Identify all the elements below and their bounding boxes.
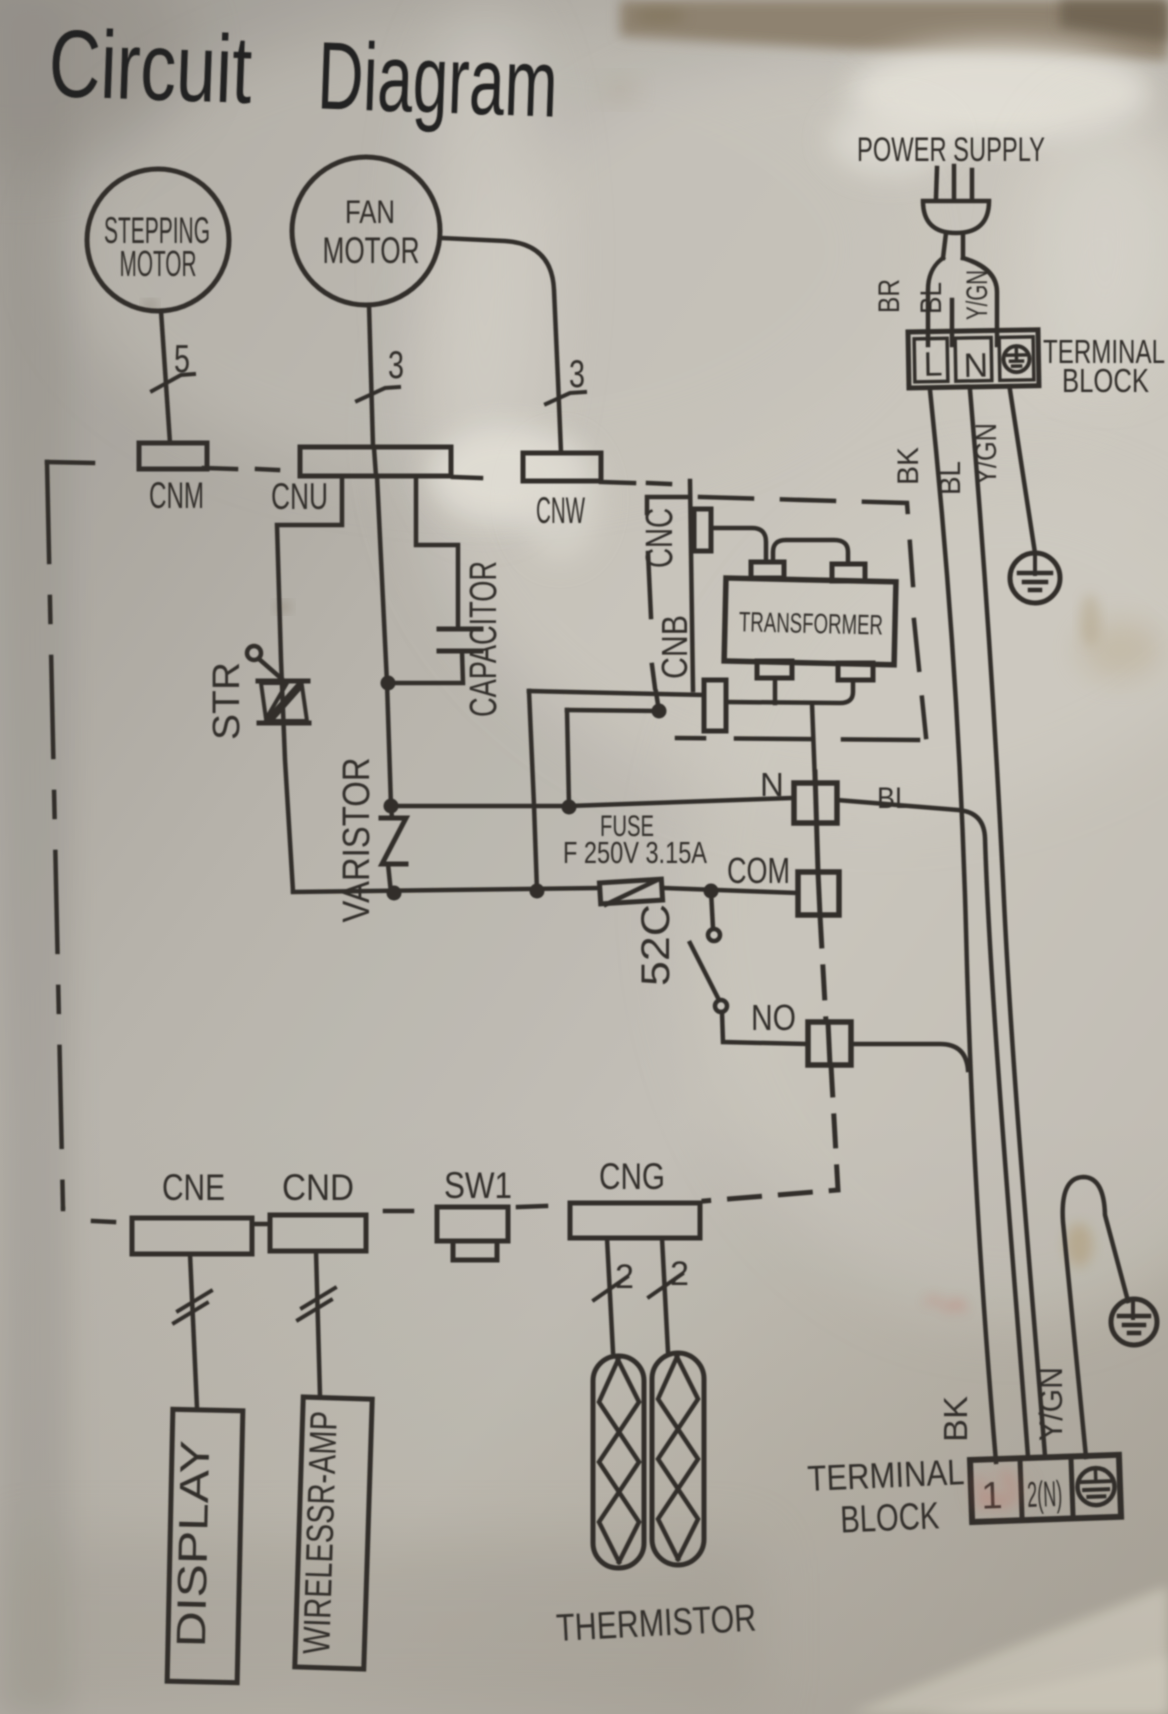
svg-text:CNE: CNE: [162, 1167, 225, 1208]
svg-text:VARISTOR: VARISTOR: [336, 758, 378, 923]
svg-text:TRANSFORMER: TRANSFORMER: [739, 606, 884, 640]
svg-text:2: 2: [670, 1255, 689, 1293]
svg-text:CNM: CNM: [149, 475, 204, 516]
svg-text:2(N): 2(N): [1027, 1473, 1063, 1515]
svg-text:CNU: CNU: [271, 476, 328, 517]
svg-text:WIRELESSR-AMP: WIRELESSR-AMP: [296, 1411, 346, 1655]
svg-text:BL: BL: [915, 282, 948, 314]
svg-text:BK: BK: [937, 1396, 974, 1442]
svg-text:CNW: CNW: [536, 490, 585, 531]
svg-text:CNC: CNC: [639, 508, 681, 568]
svg-text:52C: 52C: [634, 904, 678, 986]
svg-text:CND: CND: [282, 1167, 354, 1208]
svg-text:COM: COM: [727, 850, 790, 891]
svg-text:CNB: CNB: [654, 615, 695, 679]
svg-text:3: 3: [569, 353, 585, 396]
svg-text:BL: BL: [877, 782, 910, 815]
svg-text:TERMINAL: TERMINAL: [807, 1451, 966, 1499]
svg-text:NO: NO: [751, 997, 796, 1038]
svg-text:5: 5: [174, 338, 190, 381]
svg-text:Diagram: Diagram: [316, 22, 560, 137]
svg-text:BLOCK: BLOCK: [839, 1495, 940, 1541]
svg-text:BLOCK: BLOCK: [1062, 362, 1149, 399]
svg-text:DISPLAY: DISPLAY: [168, 1440, 218, 1648]
svg-text:CNG: CNG: [599, 1156, 665, 1197]
svg-text:Circuit: Circuit: [47, 10, 254, 124]
svg-text:N: N: [963, 347, 988, 385]
svg-text:CAPACITOR: CAPACITOR: [463, 561, 505, 717]
svg-text:L: L: [923, 345, 943, 383]
svg-text:F 250V 3.15A: F 250V 3.15A: [563, 835, 707, 870]
svg-text:2: 2: [615, 1258, 634, 1296]
svg-text:FAN: FAN: [345, 194, 395, 230]
svg-text:MOTOR: MOTOR: [323, 230, 420, 271]
svg-text:Y/GN: Y/GN: [961, 270, 994, 320]
svg-text:3: 3: [388, 344, 404, 387]
svg-text:MOTOR: MOTOR: [120, 243, 197, 284]
svg-text:BK: BK: [892, 447, 925, 485]
svg-text:Y/GN: Y/GN: [1033, 1367, 1069, 1441]
svg-text:N: N: [760, 766, 784, 803]
svg-text:Y/GN: Y/GN: [970, 423, 1003, 485]
svg-text:STR: STR: [206, 662, 248, 740]
svg-text:BR: BR: [873, 279, 906, 313]
svg-text:BL: BL: [934, 461, 967, 495]
svg-text:POWER SUPPLY: POWER SUPPLY: [857, 131, 1045, 169]
svg-text:SW1: SW1: [444, 1165, 512, 1206]
